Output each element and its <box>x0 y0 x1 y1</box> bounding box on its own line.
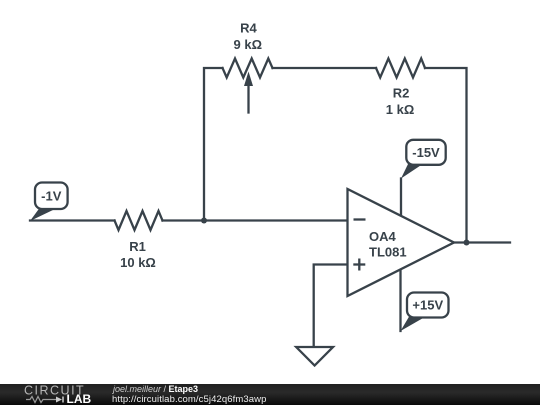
svg-text:1 kΩ: 1 kΩ <box>386 102 415 117</box>
footer bar <box>0 384 540 405</box>
op-amp OA4 triangle <box>348 189 455 296</box>
svg-text:-1V: -1V <box>41 189 62 204</box>
wire op-amp V- pin to -15V tag <box>400 179 402 216</box>
node A junction dot <box>201 218 207 224</box>
resistor R1 <box>115 211 163 230</box>
wire input from -1V tag to R1 <box>30 219 115 221</box>
potentiometer R4 wiper arrow stem <box>247 84 249 113</box>
wire op-amp V+ pin to +15V tag <box>399 269 401 331</box>
wire R4 to R2 <box>273 67 377 69</box>
wire R2 right down to output node <box>425 68 467 243</box>
voltage label -15V box <box>406 140 445 165</box>
voltage label +15V tail <box>401 315 425 331</box>
svg-text:R2: R2 <box>393 86 410 101</box>
voltage label -1V tail <box>30 206 54 221</box>
svg-text:TL081: TL081 <box>369 245 407 260</box>
wire R1 to op-amp inverting input <box>163 219 348 221</box>
CircuitLab logo <box>0 384 100 405</box>
svg-text:R4: R4 <box>240 21 257 36</box>
resistor R2 <box>376 59 425 78</box>
svg-text:+15V: +15V <box>412 298 443 313</box>
voltage label -1V box <box>35 183 68 210</box>
op-amp minus symbol <box>354 218 366 220</box>
svg-text:LAB: LAB <box>67 392 92 405</box>
potentiometer R4 arrow head <box>244 72 253 87</box>
footer credit line <box>113 384 198 394</box>
svg-text:R1: R1 <box>129 239 146 254</box>
svg-text:-15V: -15V <box>412 145 440 160</box>
op-amp plus symbol <box>353 259 365 271</box>
svg-text:OA4: OA4 <box>369 229 397 244</box>
ground <box>296 347 333 366</box>
svg-text:9 kΩ: 9 kΩ <box>234 37 263 52</box>
wire output <box>454 241 510 243</box>
output node junction dot <box>464 240 470 246</box>
wire node A up to R4 left <box>204 68 223 221</box>
potentiometer R4 zigzag <box>223 59 273 78</box>
svg-text:10 kΩ: 10 kΩ <box>120 255 156 270</box>
voltage label -15V tail <box>401 162 422 179</box>
voltage label +15V box <box>407 293 449 318</box>
footer url line <box>112 394 267 405</box>
wire non-inverting input to ground <box>314 265 348 348</box>
